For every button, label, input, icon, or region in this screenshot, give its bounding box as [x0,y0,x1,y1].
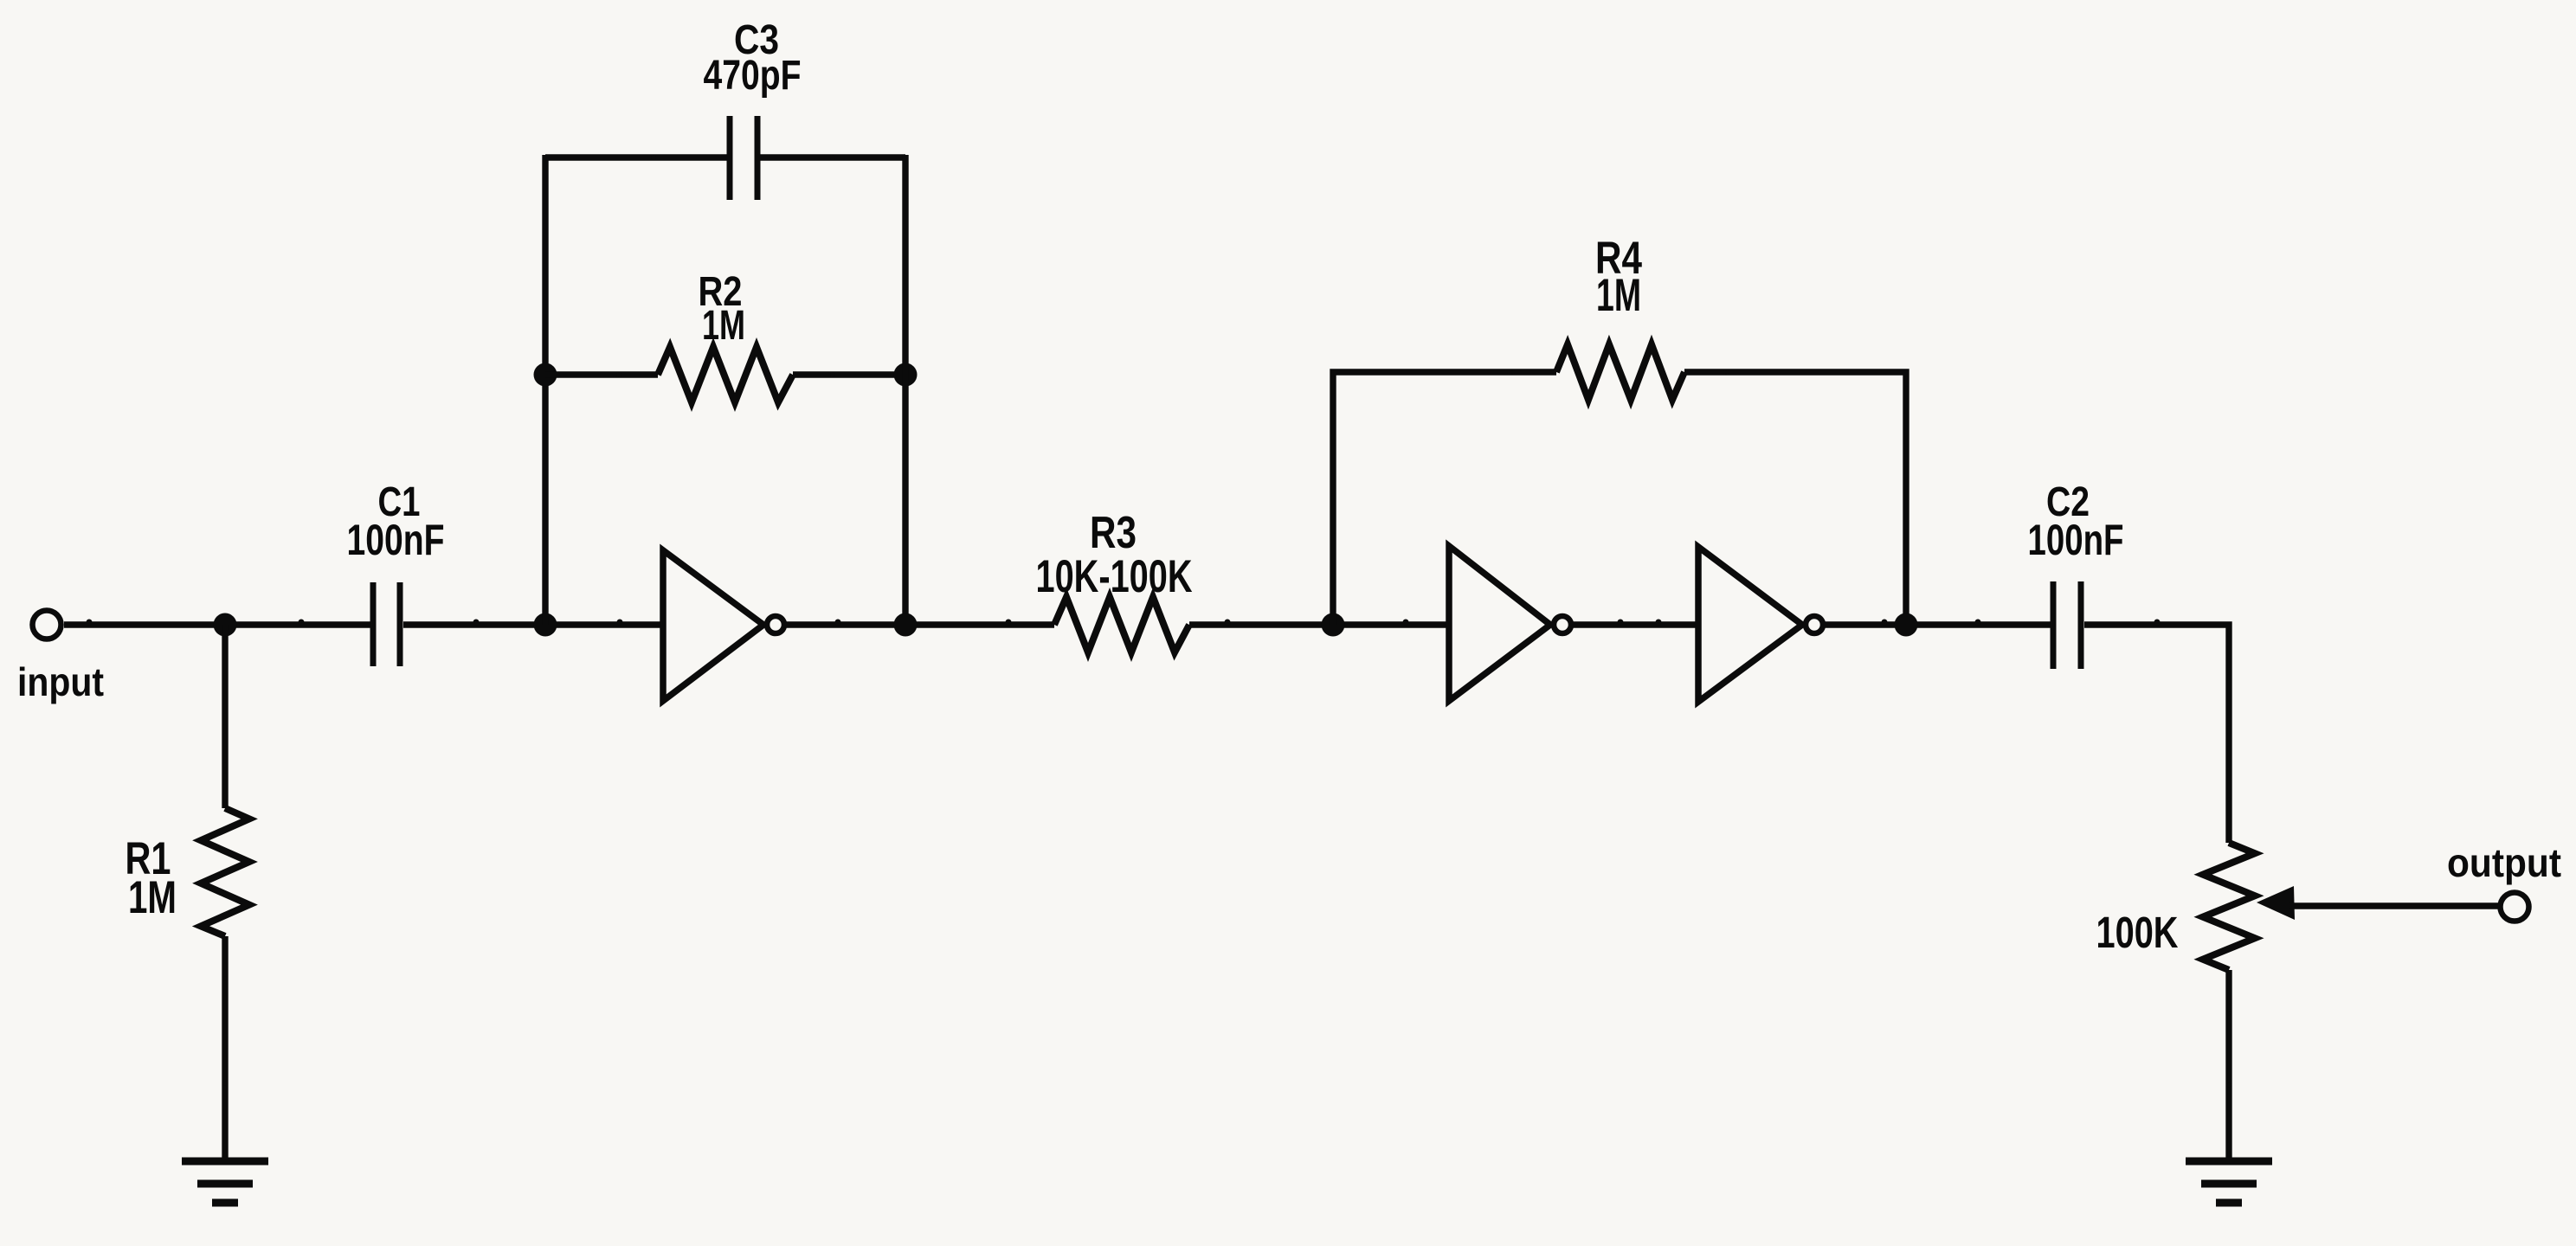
potentiometer wiper arrow [2257,886,2498,920]
wire: C2 to potentiometer top [2084,625,2229,843]
svg-text:100K: 100K [2096,908,2179,957]
wire: C1 to inverter U1 input [403,621,663,627]
node: R2 right junction [894,363,918,387]
output terminal [2501,893,2529,922]
inverter U3 [1698,547,1802,702]
ground (left) [182,1161,268,1203]
resistor R4 [1556,344,1684,400]
potentiometer R5 100K [2203,843,2255,970]
capacitor C3 [730,116,757,200]
resistor R2 [658,347,793,402]
wire: U3 output to C2 [1823,621,2051,627]
wire: R4 right lead and right rail down [1684,372,1906,625]
wire: left rail of R4 feedback loop [1333,372,1556,625]
inverter U1 bubble [767,616,784,633]
svg-text:1M: 1M [128,872,177,923]
node: R2 left junction [534,363,557,387]
node: U2 input junction [1322,613,1345,637]
wire: R1 branch down from input junction [222,625,228,808]
node: U3 output junction [1895,613,1918,637]
ground (right) [2186,1161,2272,1203]
wire: R1 to ground [222,936,228,1161]
wire: potentiometer bottom to ground [2225,970,2231,1161]
resistor R1 [201,808,249,936]
wire: R3 to inverter U2 input [1189,621,1449,627]
svg-text:100nF: 100nF [347,516,445,564]
svg-text:1M: 1M [702,303,745,349]
inverter U2 [1449,546,1550,701]
inverter U1 [663,550,763,701]
node: U1 input junction [534,613,557,637]
svg-text:1M: 1M [1596,270,1641,321]
wire: U2 output to U3 input [1571,621,1698,627]
inverter U2 bubble [1554,616,1571,633]
svg-text:100nF: 100nF [2028,516,2124,564]
wire: C3 top left lead [545,154,727,160]
svg-text:470pF: 470pF [704,53,802,99]
wire: R2 left lead [545,371,658,377]
wire: R2 right lead [793,371,905,377]
wire specks (small junction artifacts along wires) [87,155,2483,1088]
wire: U1 output to R3 [784,621,1054,627]
resistor R3 [1054,597,1189,652]
input terminal [33,611,61,639]
capacitor C1 [373,582,400,666]
wire: right rail of R2/C3 feedback loop [902,155,908,625]
node: U1 output junction [894,613,918,637]
wire: input terminal to C1 [64,621,372,627]
capacitor C2 [2053,581,2081,669]
inverter U3 bubble [1806,616,1823,633]
wire: C3 top right lead [760,154,905,160]
node: input junction [214,613,237,637]
svg-text:output: output [2447,840,2561,885]
svg-text:input: input [17,659,104,704]
svg-text:10K-100K: 10K-100K [1036,551,1193,602]
wire: left rail of R2/C3 feedback loop [542,155,548,625]
